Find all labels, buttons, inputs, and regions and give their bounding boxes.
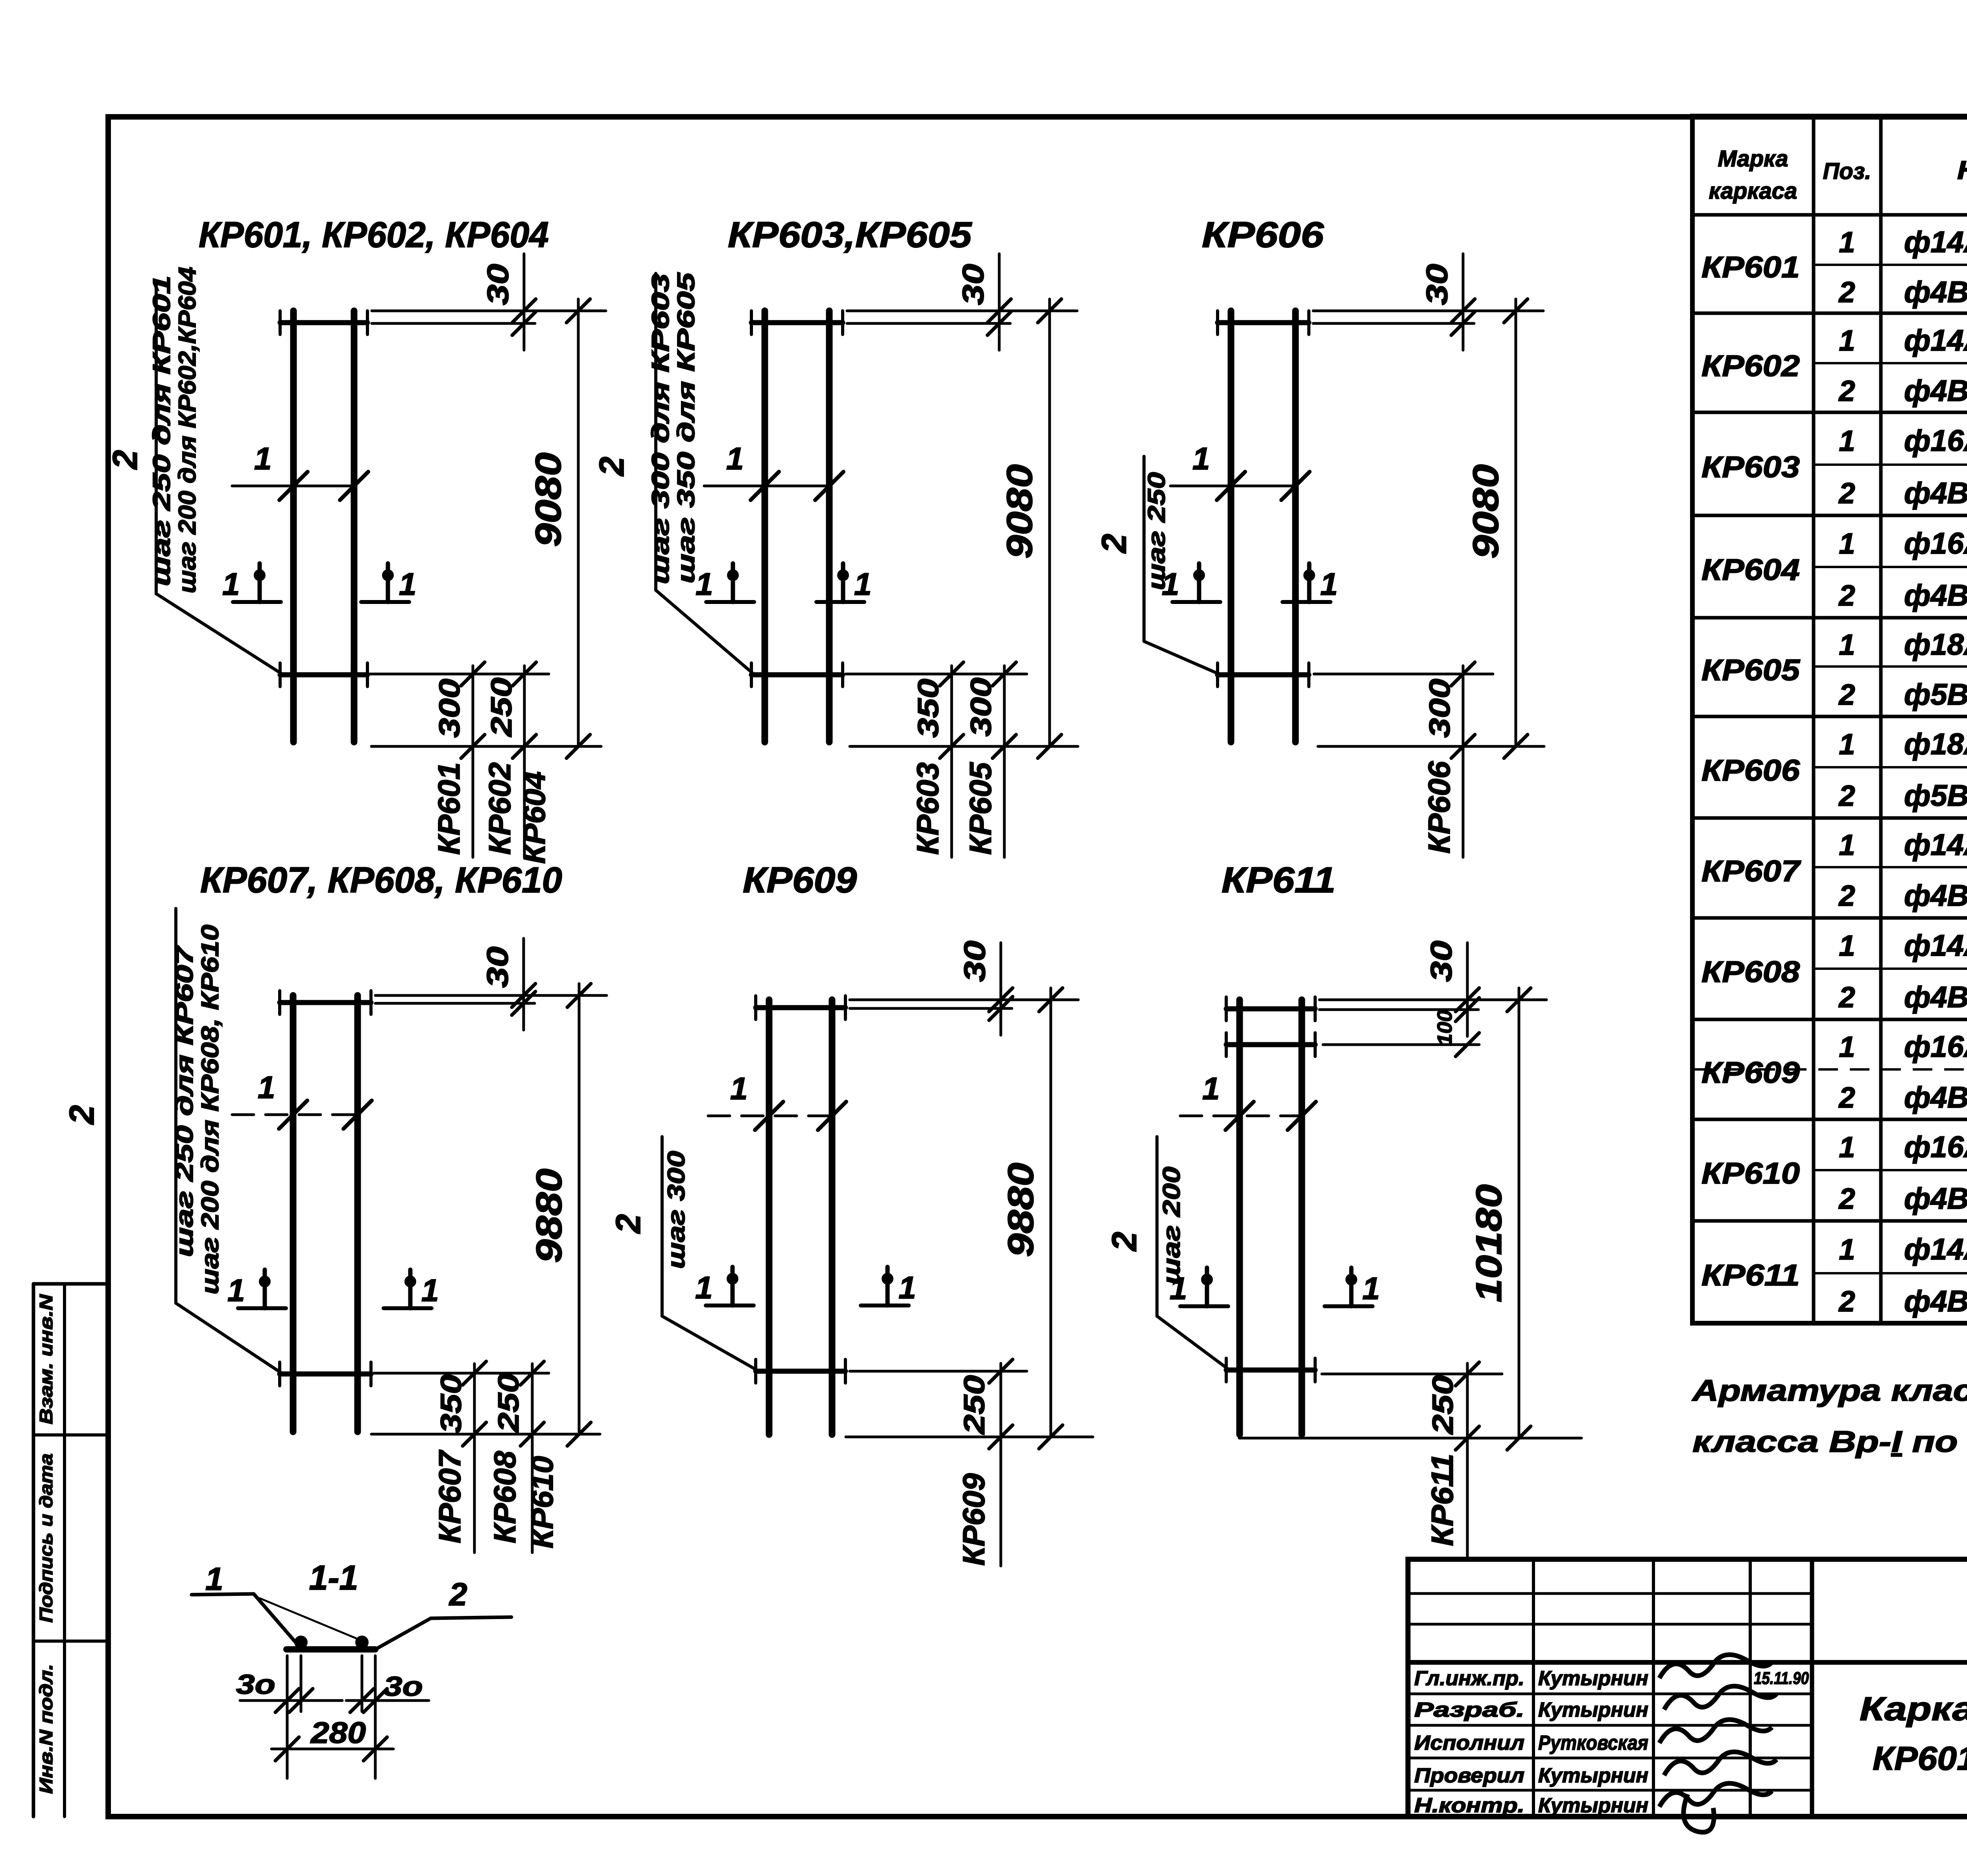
KR611 cross bar pos.2 (3)	[1226, 1368, 1315, 1373]
svg-text:КР607: КР607	[1701, 855, 1801, 888]
svg-text:Кутырнин: Кутырнин	[1538, 1764, 1648, 1787]
KR603/605 section line 1-1	[704, 485, 826, 487]
svg-text:ф4ВрIl=280: ф4ВрIl=280	[1904, 1182, 1967, 1215]
svg-text:2: 2	[1838, 1182, 1855, 1215]
section 1-1 dim 30 right	[346, 1699, 429, 1702]
svg-text:КР604: КР604	[517, 772, 552, 864]
KR611 dim 100 extension line	[1323, 1043, 1479, 1046]
svg-text:9080: 9080	[528, 452, 568, 547]
svg-text:ф4ВрIl=280: ф4ВрIl=280	[1904, 1081, 1967, 1114]
svg-text:КР611: КР611	[1222, 860, 1336, 900]
KR607/608/610 dim 30 extension lines	[375, 994, 607, 997]
svg-text:КР601: КР601	[432, 763, 466, 855]
KR606 cross bar pos.2 (2)	[1218, 672, 1309, 678]
svg-text:1: 1	[695, 1270, 713, 1305]
svg-text:КР602: КР602	[482, 763, 517, 855]
KR611 overall length dimension line	[1518, 988, 1520, 1438]
svg-text:КР603,КР605: КР603,КР605	[728, 215, 972, 255]
KR606 cross bar pos.2 (1)	[1218, 320, 1309, 325]
svg-text:2: 2	[1838, 579, 1855, 612]
KR606 bottom dim extension vertical	[1462, 666, 1465, 857]
svg-text:1: 1	[421, 1273, 439, 1308]
svg-text:ф5ВрIl=280: ф5ВрIl=280	[1904, 678, 1967, 711]
svg-text:Каркас плоский: Каркас плоский	[1860, 1690, 1967, 1727]
KR606 dim 30 extension lines	[1313, 310, 1543, 312]
KR601/602/604 dim 30 extension lines	[372, 310, 606, 312]
svg-text:Арматура класса А-III по ГО: Арматура класса А-III по ГОСТ 5781-82	[1692, 1374, 1967, 1407]
KR607/608/610 section mark 1 right	[384, 1306, 432, 1310]
svg-text:2: 2	[1094, 534, 1133, 554]
KR609 section mark 1 left	[706, 1304, 754, 1307]
svg-text:Взам. инв.N: Взам. инв.N	[36, 1294, 56, 1424]
svg-text:ф4ВрIl=280: ф4ВрIl=280	[1904, 1285, 1967, 1318]
KR609 cross bar pos.2 (2)	[756, 1369, 845, 1374]
KR609 leader line for pos.2 spacing note	[661, 1137, 664, 1316]
svg-text:1: 1	[1839, 728, 1855, 761]
KR611 bottom extension line upper	[1322, 1373, 1502, 1376]
svg-text:КР609: КР609	[743, 860, 857, 900]
svg-text:1: 1	[399, 567, 417, 602]
svg-text:2: 2	[1838, 879, 1855, 912]
svg-text:Рутковская: Рутковская	[1538, 1732, 1648, 1754]
KR601/602/604 cross bar pos.2 (1)	[280, 320, 367, 325]
svg-text:30: 30	[958, 941, 992, 982]
KR607/608/610 leader line for pos.2 spacing note	[174, 908, 177, 1303]
svg-text:КР604: КР604	[1701, 553, 1800, 587]
svg-text:1: 1	[726, 441, 744, 476]
svg-text:2: 2	[1838, 1081, 1855, 1114]
KR603/605 bottom dim extension vertical	[950, 666, 953, 857]
KR611 leader line for pos.2 spacing note	[1155, 1137, 1159, 1316]
svg-text:350: 350	[912, 679, 945, 738]
KR603/605 dim 30 dimension line	[998, 254, 1001, 350]
svg-text:Инв.N подл.: Инв.N подл.	[36, 1664, 56, 1794]
KR606 section line 1-1	[1170, 485, 1292, 487]
svg-text:Кутырнин: Кутырнин	[1538, 1699, 1648, 1721]
svg-text:3о: 3о	[236, 1669, 275, 1700]
svg-text:30: 30	[1421, 264, 1454, 305]
KR606 dim 30 dimension line	[1462, 254, 1465, 350]
KR609 cross bar pos.2 (1)	[756, 1005, 845, 1010]
section 1-1 leader line right	[431, 1617, 511, 1618]
svg-text:2: 2	[1838, 375, 1855, 407]
KR609 longitudinal bar pos.1 left	[766, 1000, 773, 1435]
svg-text:2: 2	[448, 1577, 467, 1612]
section 1-1 thin leader to bar dot	[260, 1598, 362, 1641]
svg-text:Поз.: Поз.	[1823, 159, 1871, 184]
KR611 dim 30 extension lines	[1319, 999, 1546, 1001]
svg-text:шаг 250 для КР607: шаг 250 для КР607	[171, 945, 198, 1257]
svg-text:каркаса: каркаса	[1709, 178, 1797, 204]
svg-text:КР608: КР608	[487, 1451, 522, 1544]
KR603/605 longitudinal bar pos.1 right	[826, 311, 833, 742]
KR607/608/610 cross bar pos.2 (1)	[280, 1000, 371, 1005]
KR607/608/610 longitudinal bar pos.1 left	[290, 995, 297, 1432]
KR601/602/604 longitudinal bar pos.1 right	[351, 311, 358, 742]
svg-text:2: 2	[1838, 779, 1855, 812]
svg-text:КР610: КР610	[525, 1456, 559, 1549]
svg-text:1: 1	[222, 567, 240, 602]
KR607/608/610 cross bar pos.2 (2)	[280, 1372, 371, 1377]
KR609 bottom extension line upper	[850, 1370, 1027, 1373]
KR611 bottom dim extension vertical	[1466, 1363, 1469, 1558]
svg-text:2: 2	[105, 450, 144, 470]
KR609 dim 30 dimension line	[1000, 943, 1002, 1035]
svg-text:ф4ВрIl=280: ф4ВрIl=280	[1904, 275, 1967, 309]
svg-text:КР609: КР609	[956, 1473, 991, 1566]
KR611 section mark 1 left	[1180, 1304, 1228, 1308]
svg-text:ф4ВрIl=280: ф4ВрIl=280	[1904, 374, 1967, 408]
signatures (scribbles)	[1659, 1654, 1772, 1678]
svg-text:Марка: Марка	[1718, 146, 1788, 172]
svg-text:КР603: КР603	[910, 763, 945, 855]
svg-text:ф14АIIIl=9080: ф14АIIIl=9080	[1904, 225, 1967, 259]
svg-text:Н.контр.: Н.контр.	[1414, 1794, 1524, 1817]
KR611 dim 30 dimension line	[1466, 943, 1469, 1036]
svg-text:2: 2	[62, 1105, 101, 1125]
svg-text:1: 1	[899, 1270, 916, 1305]
KR603/605 leader line for pos.2 spacing note	[654, 273, 657, 590]
svg-text:250: 250	[492, 1373, 525, 1433]
KR611 section mark 1 right	[1325, 1304, 1373, 1308]
svg-text:шаг 250: шаг 250	[1143, 472, 1170, 590]
svg-text:1: 1	[1202, 1071, 1220, 1106]
specification table grid	[1692, 116, 1967, 1323]
svg-text:шаг 200 для КР602,КР604: шаг 200 для КР602,КР604	[174, 267, 201, 593]
svg-text:1: 1	[1839, 324, 1855, 357]
svg-text:250: 250	[958, 1375, 991, 1435]
svg-text:1: 1	[254, 441, 272, 476]
svg-text:КР607: КР607	[432, 1449, 467, 1544]
svg-text:1: 1	[1839, 1131, 1855, 1163]
KR603/605 overall length dimension line	[1048, 299, 1051, 746]
KR601/602/604 bottom dim extension vertical	[523, 666, 526, 857]
svg-text:1-1: 1-1	[309, 1558, 358, 1597]
svg-text:30: 30	[481, 947, 515, 988]
KR606 bottom extension line upper	[1314, 673, 1493, 676]
KR601/602/604 section mark 1 right	[361, 600, 409, 604]
svg-text:шаг 200 для КР608, КР610: шаг 200 для КР608, КР610	[197, 925, 224, 1294]
svg-text:ф16АIIIl=9080: ф16АIIIl=9080	[1904, 527, 1967, 560]
svg-text:9080: 9080	[1466, 464, 1506, 559]
section 1-1 extension verticals	[286, 1656, 289, 1778]
section 1-1 longitudinal bar dot right	[355, 1636, 369, 1649]
KR607/608/610 bottom extension line lower	[371, 1433, 600, 1436]
svg-text:1: 1	[258, 1070, 275, 1105]
KR607/608/610 bottom extension line upper	[374, 1372, 549, 1375]
svg-text:1: 1	[1839, 226, 1855, 259]
svg-text:1: 1	[205, 1561, 223, 1597]
svg-text:ф4ВрIl=280: ф4ВрIl=280	[1904, 879, 1967, 912]
KR603/605 cross bar pos.2 (1)	[751, 320, 843, 325]
svg-text:Исполнил: Исполнил	[1414, 1732, 1524, 1754]
KR609 dim 30 extension lines	[850, 999, 1078, 1001]
svg-text:1: 1	[227, 1273, 245, 1308]
svg-text:3о: 3о	[384, 1671, 423, 1702]
svg-text:шаг 300: шаг 300	[663, 1151, 690, 1269]
KR606 longitudinal bar pos.1 right	[1292, 311, 1299, 742]
KR611 section line 1-1	[1180, 1115, 1310, 1117]
KR601/602/604 leader line for pos.2 spacing note	[155, 282, 158, 594]
title block main horizontal	[1408, 1660, 1967, 1665]
svg-text:10180: 10180	[1469, 1184, 1509, 1302]
svg-text:КР601, КР602, КР604: КР601, КР602, КР604	[199, 215, 549, 255]
svg-text:ф4ВрIl=280: ф4ВрIl=280	[1904, 579, 1967, 612]
svg-text:КР605: КР605	[1701, 654, 1801, 687]
svg-text:9080: 9080	[1000, 464, 1040, 559]
svg-text:2: 2	[1838, 276, 1855, 308]
KR601/602/604 bottom dim extension vertical	[472, 666, 474, 857]
KR606 bottom extension line lower	[1318, 745, 1544, 748]
svg-text:1: 1	[1839, 829, 1855, 861]
svg-text:КР606: КР606	[1202, 215, 1324, 255]
svg-text:15.11.90: 15.11.90	[1754, 1669, 1809, 1688]
KR607/608/610 section mark 1 left	[238, 1306, 286, 1310]
svg-text:ф4ВрIl=280: ф4ВрIl=280	[1904, 476, 1967, 510]
svg-text:Гл.инж.пр.: Гл.инж.пр.	[1414, 1667, 1524, 1690]
svg-text:2: 2	[1105, 1232, 1144, 1252]
KR606 overall length dimension line	[1515, 299, 1517, 746]
KR603/605 bottom extension line upper	[846, 673, 1027, 676]
KR603/605 section mark 1 right	[816, 600, 864, 604]
svg-text:2: 2	[1838, 678, 1855, 711]
KR607/608/610 section line 1-1	[232, 1113, 362, 1116]
KR606 section mark 1 right	[1282, 600, 1330, 604]
svg-text:Подпись и дата: Подпись и дата	[36, 1453, 56, 1623]
svg-text:1: 1	[1320, 567, 1338, 602]
svg-text:КР602: КР602	[1701, 349, 1800, 383]
svg-text:шаг 200: шаг 200	[1158, 1167, 1185, 1285]
svg-text:Наименование: Наименование	[1957, 155, 1967, 185]
KR601/602/604 section line 1-1	[232, 485, 352, 487]
svg-text:100: 100	[1434, 1010, 1456, 1045]
svg-text:КР608: КР608	[1701, 955, 1800, 989]
title block outer box	[1408, 1559, 1967, 1817]
svg-text:250: 250	[485, 678, 518, 737]
KR607/608/610 bottom dim extension vertical	[531, 1364, 534, 1553]
KR609 bottom extension line lower	[846, 1436, 1093, 1438]
section 1-1 longitudinal bar dot left	[294, 1636, 308, 1649]
KR601/602/604 bottom extension line upper	[370, 673, 549, 676]
title block upper narrow rows	[1408, 1592, 1812, 1595]
svg-text:КР610: КР610	[1701, 1157, 1800, 1190]
svg-text:300: 300	[965, 678, 997, 737]
svg-text:шаг 300 для КР603: шаг 300 для КР603	[647, 273, 674, 584]
KR611 cross bar pos.2 (2)	[1226, 1042, 1315, 1047]
svg-text:ф18АIIIl=9080: ф18АIIIl=9080	[1904, 728, 1967, 761]
section 1-1 cross bar pos.2 (plan)	[286, 1646, 375, 1653]
svg-text:350: 350	[435, 1374, 467, 1433]
svg-text:ф18АIIIl=9080: ф18АIIIl=9080	[1904, 628, 1967, 661]
section 1-1 dim 30 left	[240, 1699, 342, 1702]
KR601/602/604 longitudinal bar pos.1 left	[290, 311, 297, 742]
KR606 longitudinal bar pos.1 left	[1228, 311, 1234, 742]
KR611 longitudinal bar pos.1 left	[1236, 1000, 1243, 1435]
svg-text:2: 2	[609, 1214, 648, 1234]
section 1-1 leader line left	[192, 1594, 254, 1595]
svg-text:1: 1	[1839, 929, 1855, 962]
side stamp column box	[33, 1282, 108, 1286]
svg-text:ф14АIIIl=9880: ф14АIIIl=9880	[1904, 828, 1967, 862]
KR603/605 longitudinal bar pos.1 left	[762, 311, 768, 742]
KR609 section line 1-1	[708, 1115, 838, 1117]
KR611 bottom extension line lower	[1239, 1437, 1581, 1440]
svg-text:2: 2	[1838, 477, 1855, 510]
svg-text:КР606: КР606	[1422, 761, 1456, 854]
svg-text:Кутырнин: Кутырнин	[1538, 1794, 1648, 1817]
svg-text:2: 2	[592, 456, 631, 476]
KR611 cross bar pos.2 (1)	[1226, 1006, 1315, 1012]
svg-text:КР607, КР608, КР610: КР607, КР608, КР610	[200, 860, 562, 900]
KR603/605 bottom extension line lower	[850, 745, 1078, 748]
svg-text:КР609: КР609	[1701, 1056, 1800, 1089]
svg-text:КР611: КР611	[1701, 1259, 1800, 1292]
KR606 leader line for pos.2 spacing note	[1142, 456, 1146, 641]
svg-text:Разраб.: Разраб.	[1414, 1699, 1524, 1721]
svg-text:КР606: КР606	[1701, 754, 1800, 787]
svg-text:шаг 350 для КР605: шаг 350 для КР605	[673, 272, 700, 583]
svg-text:ф4ВрIl=280: ф4ВрIl=280	[1904, 980, 1967, 1014]
svg-text:30: 30	[957, 264, 990, 305]
KR607/608/610 bottom dim extension vertical	[473, 1364, 476, 1553]
KR601/602/604 overall length dimension line	[577, 299, 580, 746]
svg-text:30: 30	[482, 264, 515, 305]
svg-text:1: 1	[1192, 441, 1210, 476]
svg-text:300: 300	[1423, 679, 1456, 738]
svg-text:ф16АIIIl=9880: ф16АIIIl=9880	[1904, 1130, 1967, 1164]
svg-text:2: 2	[1838, 981, 1855, 1014]
title block verticals (staff table)	[1532, 1559, 1535, 1817]
svg-text:ф16АIIIl=9880: ф16АIIIl=9880	[1904, 1030, 1967, 1064]
KR611 longitudinal bar pos.1 right	[1299, 1000, 1305, 1435]
KR603/605 cross bar pos.2 (2)	[751, 672, 843, 678]
svg-text:Проверил: Проверил	[1414, 1764, 1524, 1787]
KR609 longitudinal bar pos.1 right	[829, 1000, 836, 1435]
svg-text:ф14АIIIl=9080: ф14АIIIl=9080	[1904, 324, 1967, 357]
svg-text:КР603: КР603	[1701, 451, 1800, 484]
KR607/608/610 longitudinal bar pos.1 right	[354, 995, 361, 1432]
KR607/608/610 overall length dimension line	[578, 984, 581, 1434]
KR607/608/610 dim 30 dimension line	[522, 938, 525, 1030]
svg-text:1: 1	[854, 567, 872, 602]
svg-text:ф5ВрIl=280: ф5ВрIl=280	[1904, 779, 1967, 812]
KR606 section mark 1 left	[1172, 600, 1220, 604]
svg-text:1: 1	[1839, 425, 1855, 457]
KR609 bottom dim extension vertical	[1000, 1363, 1002, 1566]
KR601/602/604 dim 30 dimension line	[523, 254, 526, 350]
svg-text:ф16АIIIl=9080: ф16АIIIl=9080	[1904, 424, 1967, 458]
svg-text:1: 1	[1839, 1030, 1855, 1063]
svg-text:300: 300	[433, 679, 466, 738]
svg-text:Кутырнин: Кутырнин	[1538, 1667, 1648, 1690]
KR609 section mark 1 right	[861, 1304, 909, 1307]
svg-text:ф14АIIIl=10180: ф14АIIIl=10180	[1904, 1233, 1967, 1266]
svg-text:280: 280	[310, 1716, 366, 1750]
KR601/602/604 bottom extension line lower	[371, 745, 601, 748]
svg-text:9880: 9880	[529, 1169, 569, 1263]
KR609 overall length dimension line	[1050, 988, 1052, 1437]
svg-text:30: 30	[1425, 941, 1458, 982]
svg-text:1: 1	[730, 1071, 748, 1106]
svg-text:шаг 250 для КР601: шаг 250 для КР601	[148, 275, 175, 586]
svg-text:КР601... КР611: КР601... КР611	[1873, 1740, 1967, 1777]
svg-text:2: 2	[1838, 1285, 1855, 1318]
svg-text:ф14АIIIl=9880: ф14АIIIl=9880	[1904, 929, 1967, 962]
table fold line (dashed sub-divider row KR609)	[1692, 1068, 1967, 1071]
KR603/605 dim 30 extension lines	[847, 310, 1077, 312]
svg-text:9880: 9880	[1001, 1163, 1041, 1257]
KR603/605 section mark 1 left	[706, 600, 754, 604]
svg-text:КР611: КР611	[1425, 1454, 1460, 1546]
KR601/602/604 section mark 1 left	[233, 600, 281, 604]
svg-text:КР605: КР605	[963, 762, 998, 855]
svg-text:КР601: КР601	[1701, 251, 1800, 284]
svg-text:1: 1	[1839, 628, 1855, 661]
svg-text:250: 250	[1426, 1375, 1459, 1435]
svg-text:1: 1	[1362, 1271, 1380, 1306]
section 1-1 dim 280	[271, 1748, 393, 1750]
svg-text:1: 1	[1839, 1233, 1855, 1266]
svg-text:класса Вр-I по ГОСТ 6727-80: класса Вр-I по ГОСТ 6727-80	[1692, 1425, 1967, 1459]
KR603/605 bottom dim extension vertical	[1003, 666, 1006, 857]
svg-text:1: 1	[1839, 527, 1855, 560]
KR601/602/604 cross bar pos.2 (2)	[280, 672, 367, 678]
staff row lines	[1408, 1693, 1812, 1695]
